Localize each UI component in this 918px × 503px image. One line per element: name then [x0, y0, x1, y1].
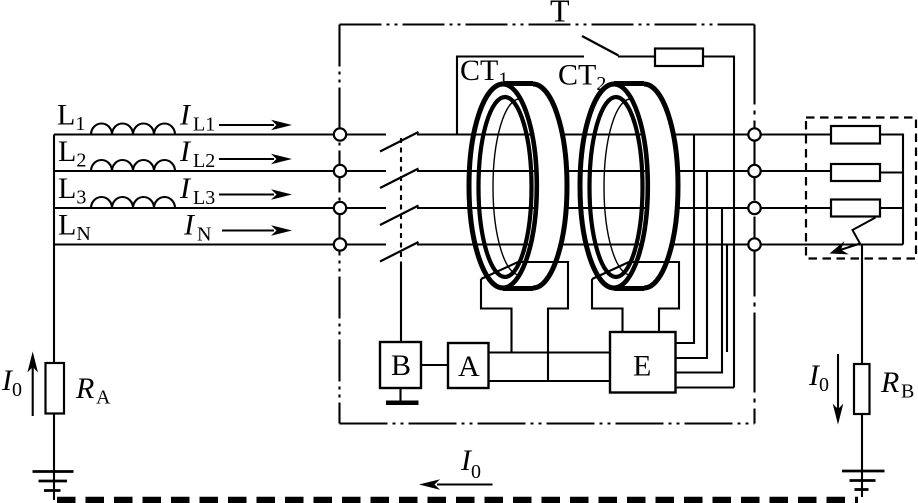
- svg-text:L2: L2: [193, 150, 215, 172]
- svg-text:T: T: [550, 0, 570, 29]
- svg-text:R: R: [75, 372, 94, 405]
- svg-text:A: A: [96, 387, 111, 409]
- svg-text:B: B: [901, 381, 914, 403]
- svg-text:L1: L1: [193, 114, 215, 136]
- svg-text:E: E: [633, 350, 651, 383]
- svg-text:0: 0: [12, 379, 22, 401]
- svg-text:0: 0: [819, 374, 829, 396]
- svg-text:R: R: [880, 366, 899, 399]
- svg-text:L3: L3: [193, 187, 215, 209]
- svg-text:N: N: [197, 224, 211, 246]
- svg-text:0: 0: [471, 461, 481, 483]
- svg-text:A: A: [458, 350, 480, 383]
- svg-text:B: B: [391, 349, 411, 382]
